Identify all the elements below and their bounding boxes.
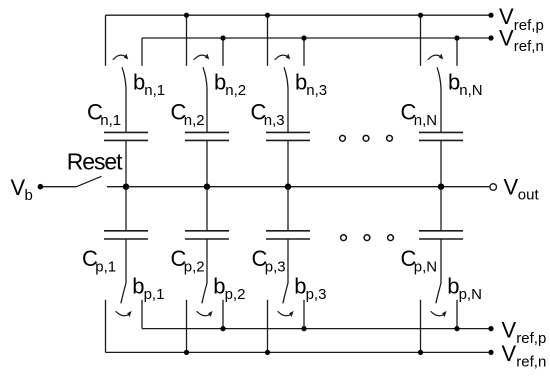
svg-text:p,1: p,1 (95, 259, 116, 276)
svg-text:V: V (499, 25, 514, 50)
svg-text:p,3: p,3 (306, 286, 327, 303)
svg-text:n,1: n,1 (144, 82, 165, 99)
svg-text:ref,p: ref,p (514, 17, 544, 34)
svg-text:V: V (11, 175, 26, 200)
svg-text:n,3: n,3 (264, 112, 285, 129)
svg-text:V: V (504, 174, 519, 199)
svg-text:p,N: p,N (459, 286, 482, 303)
svg-text:n,N: n,N (459, 82, 482, 99)
svg-text:n,2: n,2 (184, 112, 205, 129)
svg-text:b: b (25, 187, 33, 204)
svg-text:Reset: Reset (67, 149, 123, 175)
svg-text:ref,n: ref,n (516, 353, 546, 370)
svg-text:V: V (502, 341, 517, 366)
svg-text:n,3: n,3 (306, 82, 327, 99)
svg-text:out: out (518, 187, 540, 204)
svg-text:V: V (502, 318, 517, 343)
svg-text:p,N: p,N (414, 259, 437, 276)
svg-text:p,1: p,1 (144, 286, 165, 303)
svg-text:ref,n: ref,n (514, 38, 544, 55)
svg-text:p,2: p,2 (225, 286, 246, 303)
svg-text:p,3: p,3 (265, 259, 286, 276)
svg-text:n,N: n,N (414, 112, 437, 129)
svg-text:ref,p: ref,p (516, 330, 546, 347)
svg-text:n,2: n,2 (225, 82, 246, 99)
svg-text:n,1: n,1 (100, 112, 121, 129)
svg-text:p,2: p,2 (184, 259, 205, 276)
